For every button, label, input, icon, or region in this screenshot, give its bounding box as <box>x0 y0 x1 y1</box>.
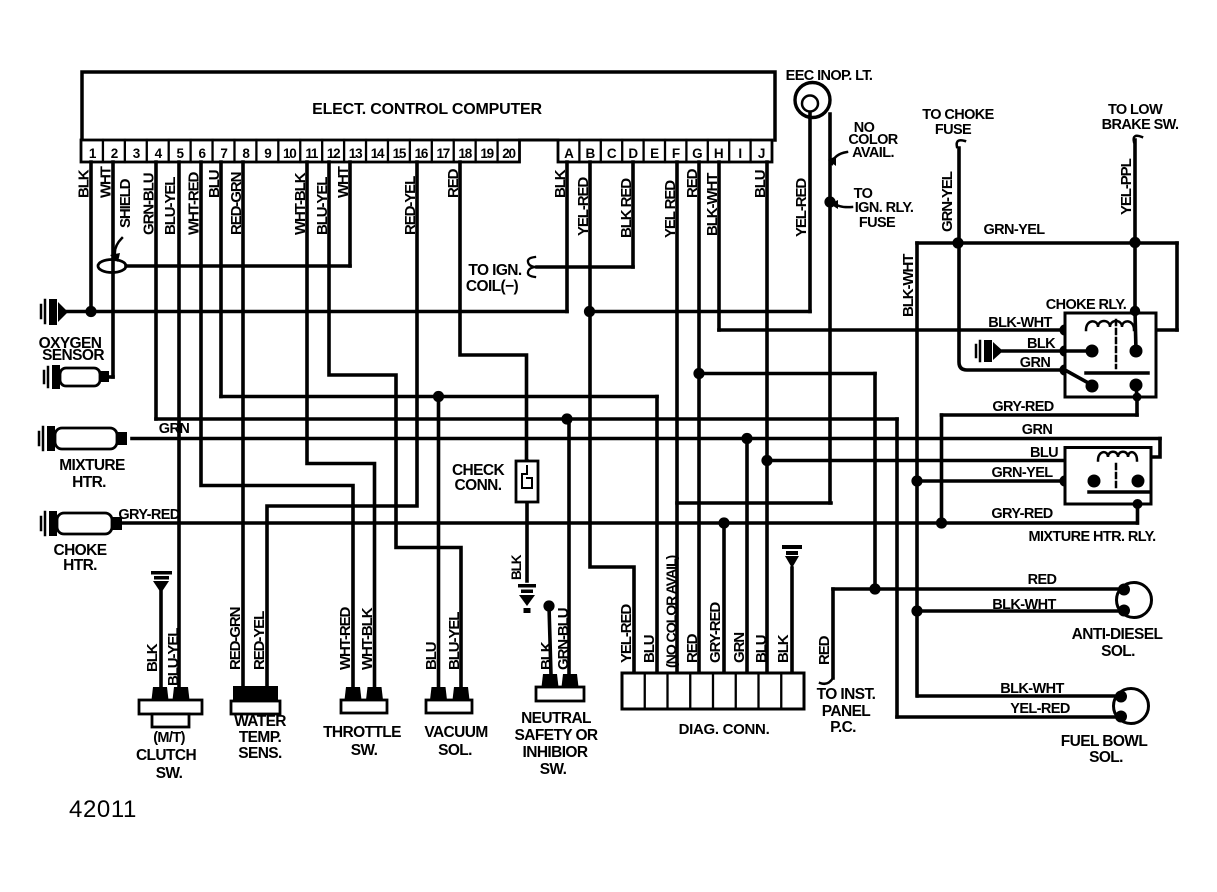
svg-text:G: G <box>692 146 702 161</box>
svg-text:YEL-RED: YEL-RED <box>575 177 592 236</box>
svg-text:BLK: BLK <box>538 641 555 670</box>
svg-text:GRN-BLU: GRN-BLU <box>141 173 158 235</box>
svg-text:BLU-YEL: BLU-YEL <box>165 628 182 686</box>
svg-text:ANTI-DIESEL: ANTI-DIESEL <box>1072 626 1163 643</box>
svg-text:12: 12 <box>327 146 340 161</box>
svg-text:RED: RED <box>1028 572 1057 588</box>
svg-text:BLU: BLU <box>752 170 769 198</box>
svg-text:18: 18 <box>458 146 472 161</box>
svg-text:B: B <box>586 146 596 161</box>
svg-text:SHIELD: SHIELD <box>117 178 134 228</box>
svg-text:D: D <box>628 146 638 161</box>
svg-text:IGN. RLY.: IGN. RLY. <box>855 200 914 216</box>
svg-text:EEC INOP. LT.: EEC INOP. LT. <box>786 68 873 84</box>
svg-text:WHT: WHT <box>98 166 115 198</box>
svg-text:WATER: WATER <box>234 713 286 730</box>
svg-text:SW.: SW. <box>351 742 378 759</box>
svg-text:GRN: GRN <box>159 421 190 437</box>
svg-text:2: 2 <box>111 146 118 161</box>
svg-text:NEUTRAL: NEUTRAL <box>521 710 591 727</box>
svg-text:BLU-YEL: BLU-YEL <box>162 177 179 235</box>
svg-text:E: E <box>650 146 659 161</box>
svg-text:TO CHOKE: TO CHOKE <box>922 107 994 123</box>
svg-text:CONN.: CONN. <box>455 477 502 494</box>
svg-text:WHT-BLK: WHT-BLK <box>292 172 309 235</box>
svg-text:TO LOW: TO LOW <box>1108 102 1163 118</box>
svg-text:RED-YEL: RED-YEL <box>251 611 268 670</box>
svg-text:14: 14 <box>371 146 385 161</box>
svg-text:BLU: BLU <box>423 642 440 670</box>
svg-text:BLK: BLK <box>144 643 161 672</box>
svg-text:BRAKE SW.: BRAKE SW. <box>1102 117 1179 133</box>
svg-text:SENS.: SENS. <box>238 745 282 762</box>
svg-text:BLU: BLU <box>641 635 658 663</box>
svg-text:PANEL: PANEL <box>822 703 871 720</box>
svg-text:GRN: GRN <box>731 633 748 663</box>
svg-text:DIAG. CONN.: DIAG. CONN. <box>679 721 770 738</box>
svg-text:FUSE: FUSE <box>859 215 896 231</box>
svg-text:17: 17 <box>436 146 449 161</box>
svg-text:AVAIL.: AVAIL. <box>852 145 894 161</box>
svg-text:BLK-WHT: BLK-WHT <box>988 315 1052 331</box>
svg-text:SW.: SW. <box>540 761 567 778</box>
svg-text:TO IGN.: TO IGN. <box>468 262 522 279</box>
svg-text:BLK: BLK <box>775 634 792 663</box>
svg-text:19: 19 <box>480 146 493 161</box>
svg-text:15: 15 <box>393 146 407 161</box>
svg-text:(M/T): (M/T) <box>153 730 185 746</box>
svg-text:10: 10 <box>283 146 296 161</box>
svg-text:16: 16 <box>415 146 429 161</box>
svg-text:RED: RED <box>816 635 833 665</box>
svg-text:P.C.: P.C. <box>830 719 856 736</box>
svg-text:A: A <box>564 146 574 161</box>
svg-text:RED: RED <box>684 168 701 198</box>
svg-text:WHT-RED: WHT-RED <box>337 606 354 670</box>
svg-text:YEL-RED: YEL-RED <box>793 178 810 237</box>
svg-text:YEL-PPL: YEL-PPL <box>1118 158 1135 215</box>
svg-text:MIXTURE: MIXTURE <box>59 457 125 474</box>
svg-text:YEL-RED: YEL-RED <box>1010 701 1070 717</box>
svg-text:GRN-YEL: GRN-YEL <box>939 171 956 232</box>
svg-text:HTR.: HTR. <box>72 474 106 491</box>
svg-text:THROTTLE: THROTTLE <box>323 724 401 741</box>
svg-text:SOL.: SOL. <box>1101 643 1135 660</box>
svg-text:RED-YEL: RED-YEL <box>402 176 419 235</box>
svg-text:GRY-RED: GRY-RED <box>991 506 1052 522</box>
svg-text:TO INST.: TO INST. <box>817 686 876 703</box>
svg-text:SOL.: SOL. <box>1089 749 1123 766</box>
svg-text:J: J <box>758 146 765 161</box>
svg-text:MIXTURE HTR. RLY.: MIXTURE HTR. RLY. <box>1028 529 1156 545</box>
svg-text:BLK: BLK <box>509 554 524 580</box>
svg-text:WHT-RED: WHT-RED <box>186 171 203 235</box>
svg-text:BLK-WHT: BLK-WHT <box>992 597 1056 613</box>
svg-text:FUSE: FUSE <box>935 122 972 138</box>
svg-text:BLK-WHT: BLK-WHT <box>1000 681 1064 697</box>
svg-text:GRN-YEL: GRN-YEL <box>991 465 1053 481</box>
svg-text:SW.: SW. <box>156 765 183 782</box>
svg-text:BLU-YEL: BLU-YEL <box>314 177 331 235</box>
svg-text:RED: RED <box>684 633 701 663</box>
svg-text:F: F <box>672 146 680 161</box>
svg-text:GRN-YEL: GRN-YEL <box>983 222 1045 238</box>
svg-text:SAFETY OR: SAFETY OR <box>514 727 597 744</box>
svg-text:BLK-WHT: BLK-WHT <box>704 173 721 236</box>
svg-text:I: I <box>738 146 741 161</box>
svg-text:GRN-BLU: GRN-BLU <box>555 608 572 670</box>
svg-text:BLU: BLU <box>753 635 770 663</box>
svg-text:BLU: BLU <box>206 170 223 198</box>
svg-text:YEL RED: YEL RED <box>662 180 679 238</box>
svg-text:INHIBIOR: INHIBIOR <box>523 744 588 761</box>
svg-text:YEL-RED: YEL-RED <box>618 604 635 663</box>
svg-text:SENSOR: SENSOR <box>42 347 104 364</box>
svg-text:CLUTCH: CLUTCH <box>136 747 197 764</box>
svg-text:C: C <box>607 146 617 161</box>
svg-text:BLU: BLU <box>1030 445 1058 461</box>
svg-text:RED-GRN: RED-GRN <box>228 172 245 235</box>
svg-text:GRY-RED: GRY-RED <box>118 507 179 523</box>
svg-text:13: 13 <box>349 146 363 161</box>
svg-text:GRY-RED: GRY-RED <box>707 602 724 663</box>
svg-text:VACUUM: VACUUM <box>424 724 487 741</box>
svg-text:7: 7 <box>220 146 227 161</box>
svg-text:FUEL BOWL: FUEL BOWL <box>1061 733 1148 750</box>
svg-text:BLK: BLK <box>76 169 93 198</box>
svg-text:RED-GRN: RED-GRN <box>227 607 244 670</box>
svg-text:SOL.: SOL. <box>438 742 472 759</box>
svg-text:11: 11 <box>305 146 319 161</box>
svg-text:RED: RED <box>445 168 462 198</box>
svg-text:H: H <box>714 146 723 161</box>
svg-text:BLU-YEL: BLU-YEL <box>446 612 463 670</box>
svg-text:ELECT. CONTROL COMPUTER: ELECT. CONTROL COMPUTER <box>312 101 542 118</box>
svg-text:TEMP.: TEMP. <box>239 729 282 746</box>
svg-text:WHT-BLK: WHT-BLK <box>359 607 376 670</box>
svg-text:(NO COLOR AVAIL): (NO COLOR AVAIL) <box>664 554 680 668</box>
svg-text:BLK-WHT: BLK-WHT <box>900 254 917 317</box>
svg-text:BLK: BLK <box>552 169 569 198</box>
svg-text:CHOKE RLY.: CHOKE RLY. <box>1046 297 1127 313</box>
svg-text:9: 9 <box>264 146 271 161</box>
svg-text:WHT: WHT <box>335 166 352 198</box>
svg-text:GRY-RED: GRY-RED <box>992 399 1053 415</box>
svg-text:20: 20 <box>502 146 515 161</box>
svg-text:HTR.: HTR. <box>63 557 97 574</box>
svg-text:42011: 42011 <box>69 796 137 823</box>
svg-text:COIL(−): COIL(−) <box>466 278 519 295</box>
svg-text:BLK RED: BLK RED <box>618 178 635 238</box>
svg-text:GRN: GRN <box>1020 355 1051 371</box>
svg-text:GRN: GRN <box>1022 422 1053 438</box>
